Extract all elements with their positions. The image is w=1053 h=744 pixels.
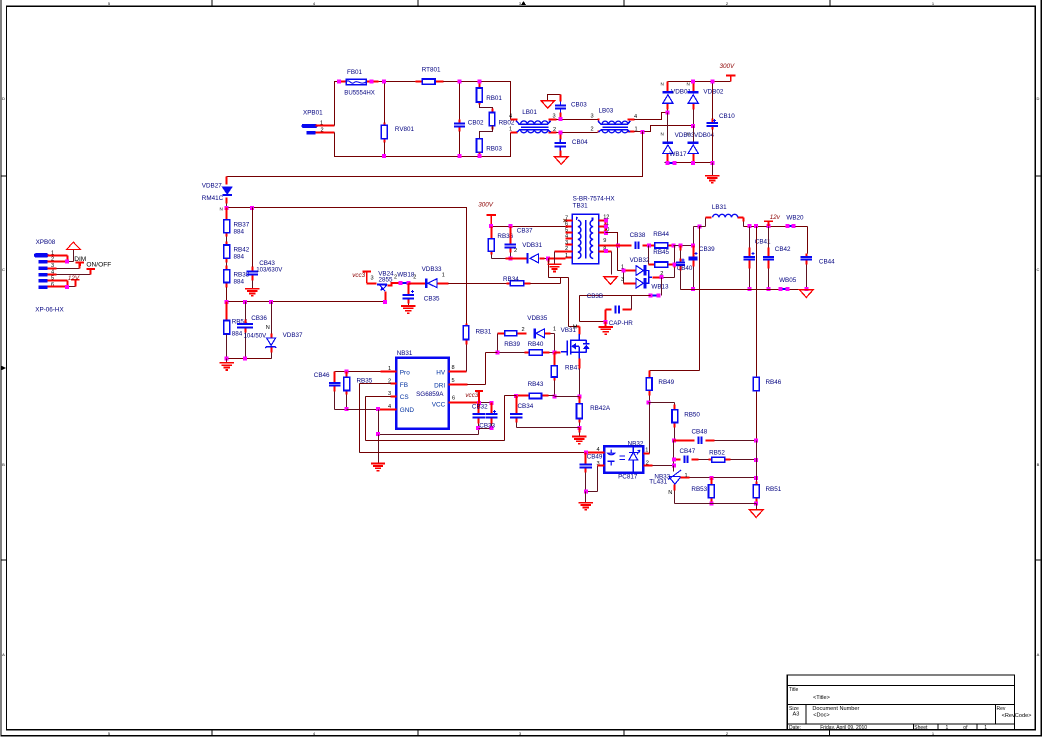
svg-text:CB34: CB34 [518,403,534,410]
capacitor CB03 [548,95,561,101]
svg-text:CB48: CB48 [692,428,708,435]
wire XPB08 pin4 to ONOFF [48,274,57,276]
svg-text:NB31: NB31 [397,350,413,357]
svg-text:WB05: WB05 [779,277,797,284]
wire snubber return [548,259,550,278]
wire VDB32 cathode node [653,277,662,279]
shunt regulator NB33 TL431 [669,477,680,485]
resistor RB52 [709,459,731,461]
svg-text:12V: 12V [68,275,80,282]
capacitor CB43 [252,208,254,267]
svg-text:VDB02: VDB02 [703,89,723,96]
wire TB31 pin9 node to VDB32 anode [618,246,624,271]
capacitor CB33 [491,403,493,424]
ground earth CAP-HR [605,322,607,327]
svg-text:CB35: CB35 [424,296,440,303]
resistor RB53 [711,478,713,502]
wire NB31 pin5 DRI to gate [449,384,468,386]
svg-text:300V: 300V [720,63,736,70]
svg-text:RB39: RB39 [504,341,520,348]
ground triangle CB03 [541,101,555,109]
svg-text:VDB27: VDB27 [202,183,222,190]
resistor RB47 [554,353,556,381]
svg-text:VDB04: VDB04 [694,132,714,139]
wire XPB01 pin2 to bottom rail [316,132,335,134]
svg-text:PC817: PC817 [618,474,638,481]
wire HV run from VDB27 node [227,208,467,326]
wire ground rail RB54 CB36 VDB37 [227,358,272,360]
svg-text:RV801: RV801 [395,126,415,133]
ground triangle secondary [604,277,618,285]
svg-text:RB34: RB34 [503,276,519,283]
transformer TB31 body [572,214,599,263]
diode VDB33 [409,283,449,285]
wire LB03 pin1 junction down [635,126,694,132]
svg-text:4: 4 [509,114,512,120]
resistor RB39 [498,333,522,335]
resistor RB50 [674,405,676,428]
ground triangle divider [749,510,763,518]
svg-text:WB18: WB18 [397,271,415,278]
svg-text:TB31: TB31 [573,203,589,210]
wire VDB35 to gate node [554,334,556,353]
wire TB31 pins 12-11-10 tie [605,221,607,233]
svg-text:1: 1 [621,264,624,270]
svg-text:CB03: CB03 [571,101,587,108]
svg-text:1: 1 [442,273,445,279]
capacitor CB38 [609,245,649,247]
wire RB38 to bus [226,288,228,302]
wire TB31 pin10 down to CB38 node [606,233,618,246]
border center arrow left [1,366,6,371]
svg-text:Rev: Rev [997,706,1006,712]
resistor RB37 [226,208,228,237]
resistor RB54 [226,302,228,321]
wire GND net to earth [378,435,380,464]
svg-text:RB45: RB45 [653,249,669,256]
svg-text:LB01: LB01 [522,109,537,116]
power symbol ONOFF a [76,262,84,266]
svg-text:VDB32: VDB32 [630,257,650,264]
wire WB13 rail to CAP-HR [580,296,651,322]
capacitor CB36 [245,302,247,320]
border column ticks bottom [212,730,829,736]
svg-text:XPB01: XPB01 [303,109,323,116]
capacitor CB40 [680,246,682,271]
fuse FB01 [340,81,379,83]
transformer TB31 left pin stubs [566,221,573,245]
svg-text:LB03: LB03 [599,108,614,115]
svg-text:884: 884 [232,331,243,338]
svg-text:Document Number: Document Number [812,706,859,712]
svg-text:4: 4 [565,234,568,240]
svg-text:VDB03: VDB03 [675,132,695,139]
title block cell dividers [806,704,996,729]
svg-text:of: of [963,725,968,731]
svg-text:884: 884 [234,278,245,285]
wire 12v feedback vertical [756,227,758,441]
capacitor CB37 [510,227,512,253]
svg-text:3: 3 [519,1,522,6]
svg-text:Sheet: Sheet [914,725,928,731]
wire NB31 pin8 HV [449,371,467,373]
svg-text:4: 4 [634,114,637,120]
ground earth NB31 [371,464,385,471]
wire XPB08 pin1 pin2 to DIM [48,256,68,262]
resistor RB43 [517,395,549,397]
thermistor RT801 [416,81,444,83]
mosfet VB31 [577,327,580,363]
power symbol 300V main [726,75,735,81]
svg-text:Pro: Pro [400,369,410,376]
wire CB49 to ground [585,492,587,503]
svg-text:9: 9 [603,238,606,244]
capacitor CB47 [674,459,699,461]
svg-text:VCC: VCC [432,402,446,409]
svg-text:CB42: CB42 [775,246,791,253]
connector XPB08 pin 1 blade [36,253,47,257]
svg-text:6: 6 [452,396,455,402]
capacitor CB04 [560,133,562,157]
border row ticks left [1,176,7,560]
capacitor CB42 [768,227,770,290]
wire snubber to drain [569,278,577,327]
connector XPB01 pin 2 blade [307,131,316,134]
jumper WB13 [652,295,657,297]
svg-text:1: 1 [565,253,568,259]
ic NB32 led symbol [608,450,615,466]
wire NB31 pin1 Pro [381,371,397,373]
svg-text:vcc3: vcc3 [465,392,478,399]
svg-text:<Doc>: <Doc> [813,712,829,718]
transformer TB31 pin2 to ground [555,251,573,253]
svg-text:CB02: CB02 [468,120,484,127]
svg-text:FB01: FB01 [347,69,363,76]
svg-text:CB44: CB44 [819,258,835,265]
transformer TB31 pin 7 no-connect [564,219,567,222]
svg-text:GND: GND [400,407,415,414]
svg-text:C: C [1037,267,1040,272]
svg-text:N: N [266,325,270,331]
svg-text:CB46: CB46 [314,372,330,379]
svg-text:6: 6 [565,221,568,227]
varistor RV801 [384,82,386,157]
capacitor CB32 [478,403,480,424]
svg-text:CB33: CB33 [479,422,495,429]
svg-text:Date:: Date: [789,725,801,731]
svg-text:2855: 2855 [379,277,394,284]
ic NB31 box [396,358,449,429]
svg-text:CS: CS [400,394,409,401]
svg-text:D: D [2,96,5,101]
svg-text:CB49: CB49 [587,454,603,461]
capacitor CB34 [516,396,518,423]
wire VDB32 to WB13 rail [661,278,663,296]
svg-text:B: B [2,462,5,467]
capacitor CB39 [693,246,695,267]
svg-text:RB31: RB31 [476,328,492,335]
ground earth RB42A [579,428,581,433]
diode VDB35 [522,333,551,335]
wire secondary ground rail [681,289,807,291]
svg-text:RB40: RB40 [528,341,544,348]
svg-text:HV: HV [436,370,446,377]
jumper WB05 [782,288,786,290]
svg-text:RB51: RB51 [766,486,782,493]
svg-text:DRI: DRI [434,383,445,390]
svg-text:RT801: RT801 [422,67,441,74]
wire opto bias vertical [673,441,675,472]
svg-text:884: 884 [234,229,245,236]
ground triangle CB04 [554,157,568,165]
ground earth CB35 [401,306,415,313]
svg-text:RB52: RB52 [709,449,725,456]
wire reference divider rail [712,477,757,479]
wire 12v divider lower vertical [756,441,758,485]
svg-text:CB10: CB10 [719,113,735,120]
svg-text:1: 1 [932,1,935,6]
svg-text:CB04: CB04 [572,139,588,146]
resistor RB36 [491,227,493,255]
svg-text:N: N [687,82,690,87]
diode VDB03 [667,113,669,143]
wire NB31 pin4 GND [379,409,397,411]
diode VDB01 [667,82,669,110]
border center arrow top [521,1,526,5]
svg-text:1: 1 [984,725,987,731]
svg-text:2: 2 [590,127,593,133]
svg-text:<Title>: <Title> [813,695,830,701]
svg-text:12v: 12v [770,214,781,221]
diode VDB02 [693,82,695,110]
ground triangle output [800,290,814,298]
resistor RB42A [579,397,581,423]
wire TB31 pin8 to secondary ground [611,252,613,275]
wire GND net down [379,410,479,435]
svg-text:RB02: RB02 [499,120,515,127]
svg-text:XPB08: XPB08 [36,239,56,246]
svg-text:WB13: WB13 [651,284,669,291]
transformer TB31 right pin stubs [599,221,612,252]
svg-text:5: 5 [451,378,454,384]
wire XPB08 pin3 to ONOFF [48,268,57,270]
wire 12v output rail [744,227,808,254]
svg-text:RB44: RB44 [653,231,669,238]
svg-text:WB20: WB20 [786,215,804,222]
svg-text:2: 2 [726,1,729,6]
svg-text:Title: Title [789,687,798,693]
capacitor CB49 [585,453,587,473]
resistor RB40 [525,352,550,354]
transistor VB24 [367,283,377,285]
svg-text:2: 2 [521,327,524,333]
wire NB32 pin4 [586,452,605,454]
resistor RB35 pro [346,372,348,395]
capacitor CB48 [674,440,715,442]
wire LB01 pin3 to LB03 pin3 [557,119,598,121]
svg-text:N: N [668,490,672,496]
svg-text:CB37: CB37 [517,228,533,235]
svg-text:1: 1 [553,327,556,333]
svg-text:CB40: CB40 [677,265,693,272]
resistor RB51 [756,482,758,502]
svg-text:3: 3 [370,276,373,282]
diode VDB31 [506,258,545,260]
diode VDB32 dual [624,271,637,284]
power symbol vcc3 NB31 [475,391,483,403]
wire bus under chain [227,301,386,303]
svg-text:C: C [2,267,5,272]
svg-text:RB37: RB37 [234,222,250,229]
wire XPB01 pin1 to fuse loop [316,125,335,127]
svg-text:2: 2 [514,248,517,254]
svg-text:SG6859A: SG6859A [416,391,444,398]
choke LB03 [598,120,635,132]
capacitor CB35 [408,284,410,304]
resistor RB45 [648,246,650,265]
svg-text:A: A [1037,652,1040,657]
svg-text:ON/OFF: ON/OFF [86,262,111,269]
svg-text:CB39: CB39 [699,246,715,253]
svg-text:RB46: RB46 [766,379,782,386]
wire NB31 pin3 CS [391,396,397,398]
svg-text:8: 8 [451,365,454,371]
svg-text:S-BR-7574-HX: S-BR-7574-HX [573,195,616,202]
wire 300V to TB31 pin6 [492,226,566,228]
svg-text:RB43: RB43 [528,381,544,388]
wire RB34 to snubber node [531,263,569,284]
ground earth bridge [712,163,714,176]
svg-text:WB17: WB17 [669,151,687,158]
svg-text:CB36: CB36 [251,315,267,322]
wire LB01 pin2 to LB03 pin2 [557,132,598,134]
svg-text:1: 1 [509,126,512,132]
resistor RB34 [507,283,531,285]
ic NB32 optocoupler box [604,446,643,473]
wire source to RB42A node [579,363,581,369]
svg-text:NB32: NB32 [628,440,644,447]
svg-text:Friday, April 09, 2010: Friday, April 09, 2010 [820,725,867,731]
border column ticks top [212,0,830,6]
port DIM triangle [67,242,80,249]
resistor RB31 startup [466,324,468,345]
svg-text:RM41C: RM41C [202,195,224,202]
resistor RB42 [226,237,228,242]
capacitor CB44 [806,254,808,265]
svg-text:2: 2 [553,127,556,133]
jumper WB18 [402,282,407,284]
svg-text:CB38: CB38 [630,232,646,239]
svg-text:N: N [220,206,223,211]
svg-text:1: 1 [684,473,687,479]
wire TL431 cathode vertical [673,466,675,472]
wire bridge top rail [668,81,731,83]
svg-text:B: B [1037,462,1040,467]
connector XPB01 pin 1 blade [304,124,316,128]
svg-text:300V: 300V [478,202,494,209]
svg-text:2: 2 [413,275,416,281]
wire VDB31 node to TB31 pin1 [549,258,573,259]
svg-text:3: 3 [565,240,568,246]
svg-text:VDB33: VDB33 [422,266,442,273]
resistor RB38 [226,263,228,266]
resistor RB49 [649,371,651,396]
svg-text:CB32: CB32 [472,404,488,411]
wire NB32 pin2 to TL431 cathode [644,465,653,467]
ic NB32 coupling arrows [620,456,626,460]
wire RB02 to RB03 jog [480,126,493,139]
capacitor CAP-HR [606,310,632,322]
resistor RB01 [479,82,481,105]
wire XPB08 pin5 pin6 to 12V [48,281,68,287]
svg-text:5: 5 [565,228,568,234]
wire input top rail [372,82,511,120]
svg-text:RB01: RB01 [486,95,502,102]
resistor RB02 [492,109,494,130]
power symbol 12v [764,221,773,226]
wire feedback sense vertical from rectifier node [650,227,700,371]
capacitor CB46 [334,372,336,392]
svg-text:VDB31: VDB31 [522,242,542,249]
svg-text:BU5554HX: BU5554HX [344,89,375,96]
wire divider ground rail [675,504,757,510]
svg-text:FB: FB [400,382,408,389]
wire bridge bottom rail [665,162,713,164]
svg-text:CAP-HR: CAP-HR [609,320,634,327]
svg-text:RB42A: RB42A [590,405,611,412]
svg-text:D: D [1037,96,1040,101]
svg-text:M: M [573,324,578,330]
svg-text:A3: A3 [793,711,800,717]
resistor RB03 [477,139,483,153]
ground earth CB49 [579,503,593,510]
svg-text:4: 4 [313,1,316,6]
border row ticks right [1035,176,1041,560]
diode VDB27 [226,177,228,204]
wire long neutral run to VDB27 [227,132,643,177]
wire NB31 pin6 VCC [449,402,479,404]
wire RB49 node to RB50 [649,403,675,410]
svg-text:RB50: RB50 [684,412,700,419]
jumper WB20 [789,225,792,227]
svg-text:5: 5 [108,1,111,6]
svg-text:TL431: TL431 [649,479,667,486]
capacitor CB41 [749,227,751,290]
ic NB32 phototransistor symbol [632,446,634,473]
ground earth RB54 rail [226,359,228,363]
wire LB03 pin4 to bridge node A [635,113,668,120]
power symbol 300V aux [487,215,496,226]
svg-text:LB31: LB31 [712,204,727,211]
ground earth CB43 [245,289,259,296]
svg-text:VDB37: VDB37 [283,332,303,339]
svg-text:<RevCode>: <RevCode> [1002,713,1032,719]
svg-text:RB49: RB49 [658,379,674,386]
inductor LB31 [697,224,701,228]
svg-text:N: N [661,132,664,137]
svg-text:3: 3 [621,277,624,283]
svg-text:884: 884 [234,254,245,261]
power symbol vcc3 VB24 [363,271,371,283]
wire VDB33 to RB34 [449,283,507,285]
diode VDB37 zener [271,302,273,334]
svg-text:RB03: RB03 [486,146,502,153]
power symbol 12V left [71,280,79,284]
jumper WB17 [669,162,673,164]
svg-text:CB47: CB47 [680,448,696,455]
wire NB32 pin1 to RB49 node [644,453,650,455]
svg-text:3: 3 [552,114,555,120]
